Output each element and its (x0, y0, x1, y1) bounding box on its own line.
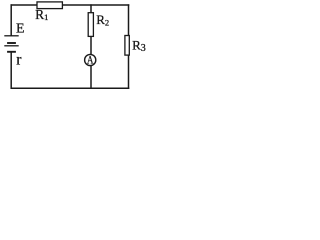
wire top (11, 4, 130, 6)
battery plate long 2 (4, 45, 18, 47)
resistor R1 (37, 2, 62, 9)
battery plate long 1 (4, 35, 18, 37)
svg-text:r: r (16, 51, 22, 68)
battery E,r (4, 36, 18, 52)
ammeter A (85, 54, 96, 65)
svg-text:E: E (16, 21, 25, 36)
battery plate short 1 (7, 42, 16, 44)
svg-text:A: A (87, 54, 94, 66)
resistor R3 (125, 36, 129, 56)
wire right (128, 4, 130, 89)
battery plate short 2 (7, 51, 16, 53)
wire left lower (10, 52, 12, 89)
resistor R2 (88, 13, 93, 37)
wire left upper (10, 4, 12, 35)
wire bottom (11, 87, 130, 89)
wire middle branch (90, 4, 92, 89)
